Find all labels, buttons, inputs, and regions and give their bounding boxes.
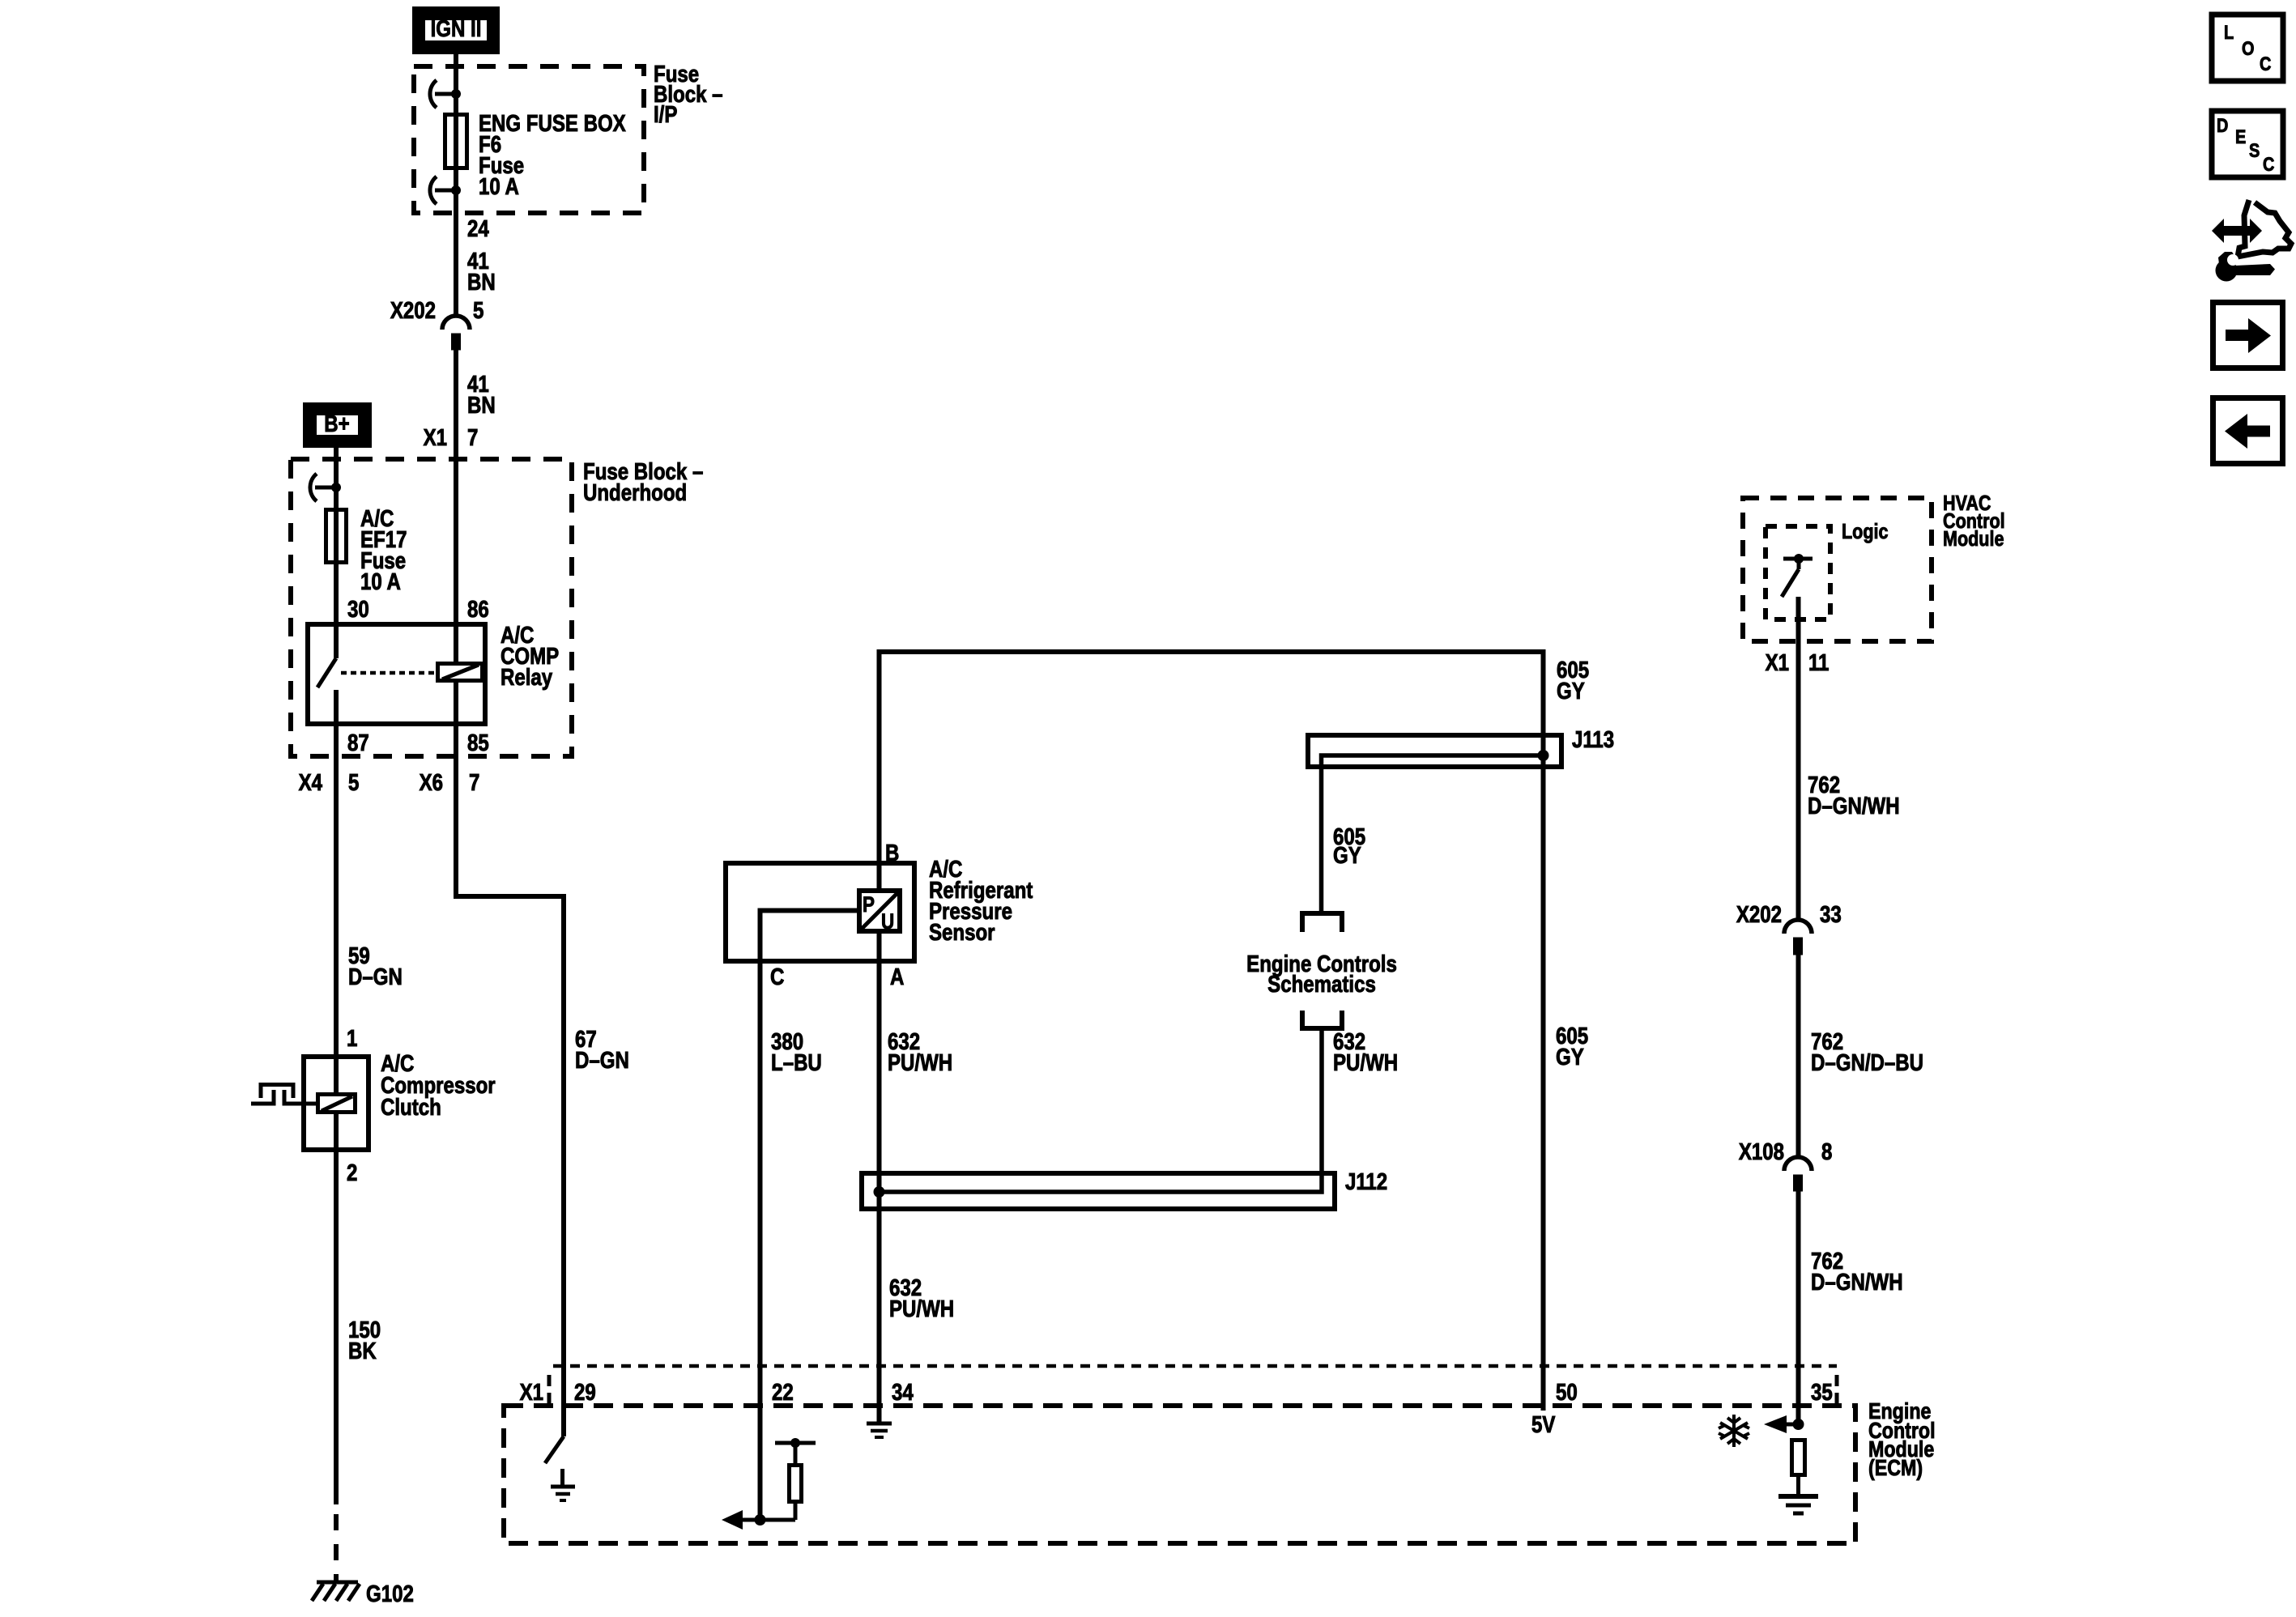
svg-text:Schematics: Schematics (1267, 971, 1376, 998)
icon: wrench (2216, 252, 2276, 282)
node X6 pin 7 (420, 769, 480, 796)
splice J113 (1308, 726, 1614, 913)
logic block dashed box (1766, 526, 1830, 619)
wire label 632 PU/WH (branch) (1333, 1028, 1398, 1076)
wire label 762 D-GN/WH (lower) (1811, 1248, 1903, 1296)
svg-text:5V: 5V (1531, 1411, 1556, 1438)
ECM pin 22 signal arrow (722, 1510, 760, 1530)
ECM internal ground (pin 34) (867, 1423, 892, 1437)
svg-text:7: 7 (469, 769, 479, 796)
label: A/C COMP Relay (501, 622, 559, 691)
wire label 605 GY (at pin 50) (1556, 1023, 1588, 1070)
svg-text:86: 86 (467, 596, 489, 623)
svg-text:11: 11 (1808, 649, 1830, 676)
svg-text:X4: X4 (299, 769, 323, 796)
icon: DESC button (2212, 111, 2283, 177)
svg-text:X1: X1 (520, 1379, 544, 1406)
svg-text:S: S (2249, 139, 2260, 161)
svg-text:BK: BK (348, 1338, 377, 1364)
icon: vehicle outline sketch (2238, 200, 2291, 257)
svg-text:X1: X1 (1766, 649, 1790, 676)
svg-text:7: 7 (467, 424, 478, 451)
svg-text:E: E (2235, 126, 2246, 147)
power label IGN II (417, 11, 495, 49)
svg-text:B: B (885, 840, 899, 866)
svg-text:D: D (2217, 114, 2228, 136)
svg-text:D–GN: D–GN (348, 964, 403, 990)
svg-text:D–GN/WH: D–GN/WH (1811, 1269, 1903, 1296)
svg-text:Sensor: Sensor (929, 919, 995, 946)
svg-text:X108: X108 (1739, 1138, 1784, 1165)
svg-text:5: 5 (348, 769, 360, 796)
label: A/C Compressor Clutch (381, 1050, 496, 1121)
clutch coil (318, 1095, 356, 1113)
wire label 605 GY (branch) (1333, 823, 1365, 869)
fuse clip (top of F6) (430, 80, 461, 108)
svg-text:X6: X6 (420, 769, 443, 796)
sensor P/U transducer square (859, 891, 900, 934)
label: A/C Refrigerant Pressure Sensor (929, 856, 1033, 946)
icon: LOC button (2212, 15, 2283, 81)
node X4 pin 5 (299, 769, 360, 796)
svg-text:Clutch: Clutch (381, 1094, 441, 1121)
power label B+ (308, 407, 367, 443)
wire: engine controls branch to splice J112 (632 PU/WH) (880, 1028, 1323, 1192)
svg-text:O: O (2242, 37, 2254, 59)
off-page connector from Engine Controls Schematics (bottom bracket) (1302, 1011, 1342, 1028)
wire: clutch to ground (150 BK) (334, 1114, 339, 1504)
svg-text:D–GN: D–GN (575, 1047, 629, 1074)
splice J112 (862, 1168, 1387, 1209)
icon: vehicle location double arrow (2212, 219, 2262, 243)
svg-text:C: C (770, 964, 784, 990)
svg-text:B+: B+ (324, 411, 349, 437)
label: Fuse Block - Underhood (583, 458, 703, 506)
wire: HVAC logic to connector X202-33 (762 D-GN/WH) (1796, 597, 1801, 920)
wire label 59 D-GN (348, 943, 403, 990)
wire label 605 GY (top) (1557, 657, 1589, 704)
snowflake A/C symbol (1719, 1415, 1749, 1447)
svg-text:D–GN/WH: D–GN/WH (1808, 793, 1900, 819)
svg-text:Relay: Relay (501, 664, 552, 691)
svg-text:85: 85 (467, 730, 489, 756)
svg-text:33: 33 (1820, 901, 1842, 928)
ECM connector pin row dashed line (553, 1364, 1837, 1368)
svg-text:10 A: 10 A (360, 568, 401, 595)
svg-text:X202: X202 (390, 297, 436, 324)
ECM pin 22 pull-up resistor (760, 1438, 816, 1520)
wire: B+ through fuse EF17 to relay pin 30 (334, 448, 339, 622)
relay actuation dashed link (341, 671, 436, 675)
wire: X108-8 to ECM pin 35 (762 D-GN/WH) (1796, 1191, 1801, 1424)
wire label 67 D-GN (575, 1026, 629, 1074)
svg-text:GY: GY (1557, 678, 1585, 704)
connector X108 pin 8 (1739, 1138, 1833, 1191)
fuse F6 10 A (445, 115, 467, 168)
svg-text:24: 24 (467, 215, 489, 242)
svg-text:87: 87 (347, 730, 369, 756)
ECM pin 35 signal arrow to A/C request (1764, 1415, 1799, 1433)
ECM pin 22 internal junction (755, 1515, 765, 1526)
logic switch symbol (1782, 554, 1813, 597)
svg-text:PU/WH: PU/WH (888, 1049, 952, 1076)
node X1 pin 11 (1766, 649, 1830, 676)
wire: X202-33 to X108-8 (762 D-GN/D-BU) (1796, 955, 1801, 1157)
wire: relay 87 to compressor clutch (59 D-GN) (334, 726, 339, 1092)
wire label 380 L-BU (771, 1028, 822, 1076)
svg-text:L–BU: L–BU (771, 1049, 822, 1076)
label: A/C EF17 Fuse 10 A (360, 505, 407, 595)
svg-text:PU/WH: PU/WH (1333, 1049, 1398, 1076)
wire label 762 D-GN/WH (upper) (1808, 772, 1900, 819)
wire: sensor A to ECM pin 34 (632 PU/WH) (877, 931, 882, 1422)
node X1 pin 7 (424, 424, 479, 451)
wire label 632 PU/WH (sensor A) (888, 1028, 952, 1076)
svg-text:30: 30 (347, 596, 369, 623)
label: Engine Controls Schematics (1246, 951, 1397, 998)
ECM pin 35 internal junction (1793, 1419, 1804, 1430)
wire label 150 BK (348, 1317, 381, 1364)
wire label 24 / 41 BN (467, 215, 496, 296)
relay coil (438, 622, 483, 726)
wire label 41 BN (lower) (467, 371, 496, 419)
svg-text:X202: X202 (1736, 901, 1782, 928)
wire: relay 85 to ECM pin 29 (67 D-GN) (456, 726, 564, 1436)
svg-text:22: 22 (772, 1379, 794, 1406)
relay box: A/C COMP Relay (308, 624, 485, 724)
label: Fuse Block - I/P (654, 61, 723, 128)
svg-text:35: 35 (1811, 1379, 1833, 1406)
ECM connector separator ticks (right) (1835, 1375, 1839, 1404)
svg-text:8: 8 (1821, 1138, 1832, 1165)
svg-text:C: C (2260, 53, 2271, 74)
svg-text:(ECM): (ECM) (1868, 1456, 1923, 1480)
svg-text:IGN II: IGN II (431, 15, 482, 42)
relay switch armature (317, 622, 336, 726)
svg-text:34: 34 (892, 1379, 914, 1406)
fuse block I/P dashed box (414, 66, 644, 213)
icon: previous page arrow button (2213, 398, 2283, 464)
ECM pin 35 pull-down resistor (1792, 1440, 1805, 1496)
svg-text:C: C (2263, 153, 2274, 175)
ECM dashed box (504, 1406, 1855, 1543)
ECM internal ground (pin 29) (551, 1469, 575, 1500)
wire: sensor B to 5V reference rail and ECM pin 50 (605 GY) (880, 652, 1544, 1411)
svg-text:GY: GY (1556, 1044, 1584, 1070)
ECM X1 connector separator ticks (left) (547, 1375, 552, 1404)
svg-text:Module: Module (1943, 527, 2004, 551)
svg-text:50: 50 (1556, 1379, 1578, 1406)
svg-text:BN: BN (467, 392, 496, 419)
svg-text:L: L (2224, 21, 2234, 43)
svg-text:G102: G102 (366, 1581, 414, 1607)
wire label 632 PU/WH (to pin 34) (889, 1274, 954, 1322)
svg-text:29: 29 (574, 1379, 596, 1406)
wire: X202-5 to relay pin 86 (41 BN) (454, 350, 458, 622)
wire: IGN II through fuse F6 to connector X202 (454, 54, 458, 316)
label: Engine Control Module (ECM) (1868, 1399, 1936, 1480)
svg-text:D–GN/D–BU: D–GN/D–BU (1811, 1049, 1923, 1076)
svg-text:I/P: I/P (654, 101, 677, 128)
svg-text:A: A (890, 964, 904, 990)
svg-text:P: P (863, 893, 875, 917)
dashed wire to G102 (334, 1514, 339, 1581)
fuse clip (bottom of F6) (430, 177, 461, 204)
svg-text:J112: J112 (1345, 1168, 1387, 1195)
A/C compressor clutch box (304, 1057, 368, 1150)
svg-text:1: 1 (347, 1025, 358, 1052)
off-page connector to Engine Controls Schematics (top bracket) (1302, 913, 1342, 932)
ECM pin 29 internal switch (545, 1436, 564, 1463)
HVAC control module dashed box (1743, 498, 1932, 641)
icon: next page arrow button (2213, 303, 2283, 368)
svg-text:BN: BN (467, 269, 496, 296)
svg-text:GY: GY (1333, 842, 1361, 869)
wire: sensor C to ECM pin 22 (380 L-BU) (760, 911, 860, 1521)
svg-text:U: U (881, 910, 894, 934)
A/C refrigerant pressure sensor box (726, 863, 914, 961)
svg-text:2: 2 (347, 1160, 357, 1186)
svg-text:Logic: Logic (1842, 520, 1889, 543)
fuse block underhood dashed box (291, 459, 572, 756)
connector X202 pin 5 (390, 297, 484, 350)
svg-text:Underhood: Underhood (583, 479, 687, 506)
svg-text:X1: X1 (424, 424, 448, 451)
svg-text:J113: J113 (1572, 726, 1614, 753)
fuse EF17 10 A (326, 510, 347, 563)
ground G102 (312, 1582, 360, 1601)
fuse clip (top of EF17) (310, 474, 341, 501)
label: HVAC Control Module (1943, 491, 2005, 551)
svg-text:10 A: 10 A (479, 173, 519, 200)
svg-text:PU/WH: PU/WH (889, 1296, 954, 1322)
wire label 762 D-GN/D-BU (1811, 1028, 1923, 1076)
ECM internal ground (pin 35) (1778, 1496, 1818, 1513)
label: ENG FUSE BOX F6 Fuse 10 A (479, 110, 626, 200)
connector X202 pin 33 (1736, 901, 1842, 955)
thermal limiter symbol (251, 1085, 319, 1106)
svg-text:5: 5 (473, 297, 484, 324)
